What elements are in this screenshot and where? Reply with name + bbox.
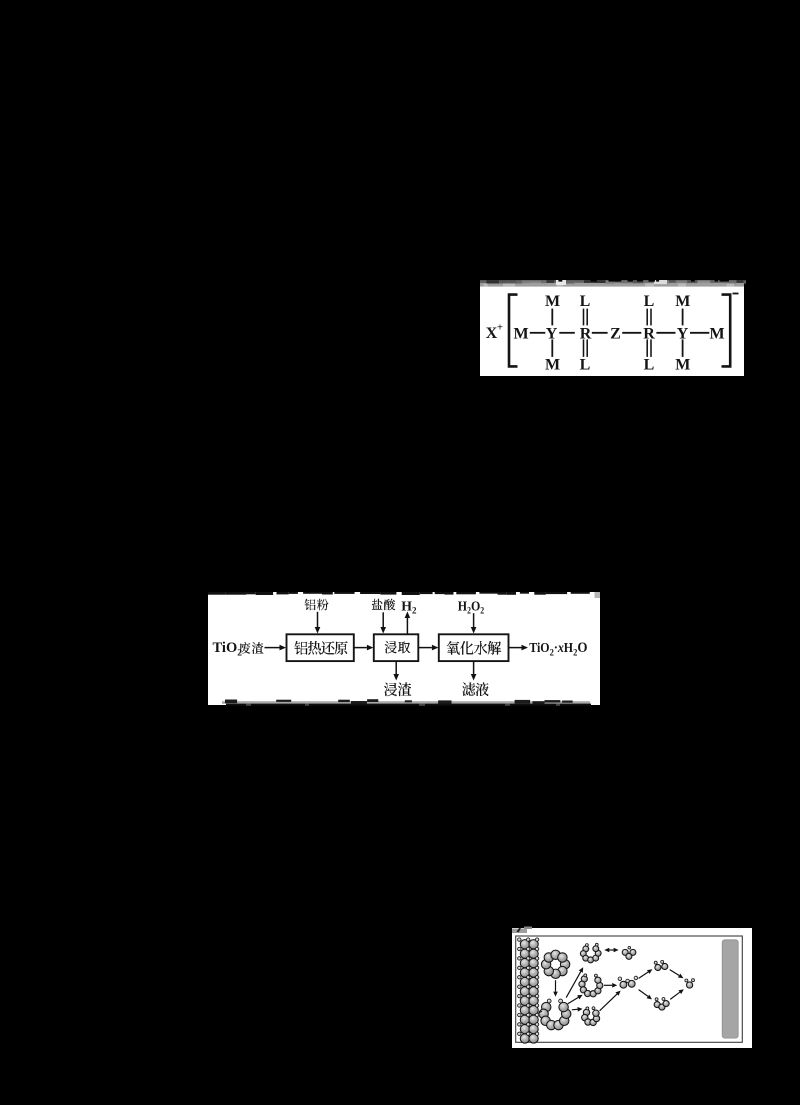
- svg-text:M: M: [545, 357, 560, 374]
- fragment chain upper: [583, 946, 589, 952]
- scan artifact top-left: [512, 929, 527, 934]
- process box: 铝热还原 (aluminothermic reduction): [287, 634, 354, 661]
- bond wall to open ring: [539, 1011, 542, 1012]
- scan artifact band: [480, 280, 744, 286]
- equilibrium double arrow: [609, 949, 613, 951]
- silicate dimer: [620, 981, 627, 988]
- svg-text:L: L: [580, 293, 591, 310]
- silica wall (atom columns): [520, 940, 529, 949]
- arrow middle chain to monomer pair: [604, 984, 612, 986]
- svg-text:M: M: [709, 325, 724, 342]
- svg-text:+: +: [497, 323, 503, 334]
- svg-text:M: M: [675, 293, 690, 310]
- lower pair cluster: [654, 1002, 660, 1008]
- process box: 浸取 (leaching): [374, 634, 419, 661]
- svg-text:M: M: [513, 325, 528, 342]
- svg-text:X: X: [486, 325, 498, 342]
- svg-text:L: L: [644, 293, 655, 310]
- small fragment bottom: [583, 1009, 589, 1015]
- scan artifacts top edge: [208, 592, 225, 595]
- label 铝粉 (Al powder) + arrow: [305, 599, 316, 611]
- arrow dimer up-right: [639, 972, 649, 978]
- superscript minus charge: [733, 293, 739, 295]
- gray slab bar right: [722, 940, 738, 1038]
- arrow upper pair to monomer: [670, 970, 680, 976]
- label 盐酸 (HCl) + arrow down, H2 + arrow up: [372, 599, 383, 610]
- right bracket: [722, 295, 731, 367]
- horizontal bonds: [530, 332, 546, 334]
- figure 1: anion structure X+[M-Y-R-Z-R-Y-M]-: [480, 286, 744, 376]
- svg-text:R: R: [580, 325, 592, 342]
- scan artifacts bottom edge: [222, 701, 590, 704]
- fragment chain middle: [581, 976, 587, 982]
- monomer: [687, 982, 693, 988]
- filtrate arrow + 滤液: [473, 662, 475, 675]
- arrow ring to open ring: [555, 980, 557, 991]
- svg-text:Z: Z: [610, 325, 621, 342]
- vertical single bonds at Y: [551, 309, 553, 326]
- water trimer: [622, 949, 628, 955]
- svg-text:L: L: [580, 357, 591, 374]
- svg-text:M: M: [675, 357, 690, 374]
- arrow dimer down-right: [639, 990, 648, 997]
- figure 3: silica dissolution molecular schematic: [512, 928, 752, 1048]
- arrows out of open ring: [566, 972, 581, 998]
- figure 2: TiO2 recovery flow chart: [208, 592, 600, 705]
- closed siloxane ring: [560, 960, 569, 969]
- left bracket: [509, 295, 518, 367]
- svg-text:L: L: [644, 357, 655, 374]
- inner border frame: [516, 936, 743, 1042]
- arrow lower pair to monomer: [670, 992, 680, 999]
- svg-text:M: M: [545, 293, 560, 310]
- vertical double bonds at R: [583, 309, 585, 326]
- svg-text:R: R: [643, 325, 655, 342]
- upper pair cluster: [655, 964, 661, 970]
- process box: 氧化水解 (oxidative hydrolysis): [439, 634, 509, 661]
- waste arrow + 浸渣: [395, 662, 397, 675]
- arrow small fragment to dimer: [600, 994, 617, 1011]
- opened ring (C-shape): [541, 1002, 550, 1011]
- flow arrows main row: [265, 647, 280, 649]
